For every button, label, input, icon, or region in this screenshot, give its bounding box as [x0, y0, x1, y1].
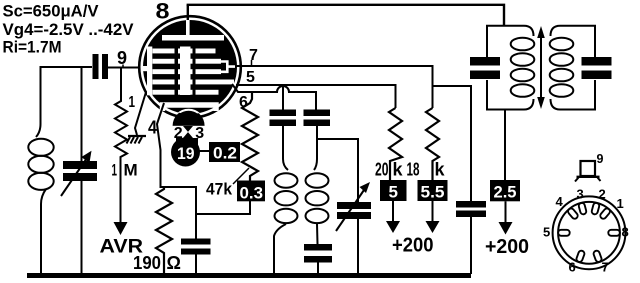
svg-text:k: k — [435, 160, 446, 180]
wire AVR arrow — [120, 183, 122, 222]
inductor L-IF-right — [306, 173, 329, 187]
wire grid top (pin9 net horizontal) — [41, 66, 93, 68]
svg-text:8: 8 — [156, 0, 170, 24]
socket outer circle — [553, 196, 626, 269]
capacitor C-bot — [304, 244, 332, 251]
svg-text:20: 20 — [375, 160, 389, 180]
ground rail — [27, 273, 471, 278]
inductor L-ant (antenna coil) — [28, 139, 53, 156]
resistor R-47k — [242, 92, 258, 183]
chassis ground (hatched) — [128, 135, 146, 137]
wire transformer tap to 2.5 — [504, 110, 506, 182]
svg-text:1: 1 — [129, 94, 136, 111]
capacitor C-bypass right — [456, 201, 486, 208]
cathode band — [163, 105, 217, 111]
grid rows — [153, 47, 235, 96]
pin 8 lead — [187, 5, 189, 20]
arrow +200 left b — [432, 201, 434, 222]
anode bar — [162, 35, 224, 41]
svg-text:Ri=1.7M: Ri=1.7M — [3, 37, 62, 56]
socket inner circle — [558, 202, 620, 264]
arrow +200 right — [505, 201, 507, 223]
svg-text:0.2: 0.2 — [213, 144, 237, 163]
meter disc 19 — [171, 138, 200, 167]
wire pin 7 to 18k — [235, 66, 433, 108]
svg-text:4: 4 — [148, 118, 157, 138]
capacitor C1 — [270, 110, 297, 117]
heater circle — [173, 110, 205, 142]
svg-text:5: 5 — [543, 224, 550, 239]
anode lead white — [186, 19, 190, 37]
wire left IF coil to rail — [274, 224, 286, 274]
capacitor C-cath — [181, 239, 211, 245]
svg-text:7: 7 — [249, 47, 258, 64]
svg-text:+200: +200 — [485, 236, 529, 258]
arrow of CV1 — [61, 158, 87, 196]
arrow of CV2 — [336, 190, 364, 231]
svg-text:1: 1 — [617, 196, 624, 211]
right bracket to pin 7 — [221, 62, 235, 72]
wire 18k branch to bypass cap — [433, 86, 471, 201]
svg-text:5: 5 — [389, 183, 398, 202]
wire right IF coil to bottom cap — [316, 224, 319, 244]
meter box 0.3 — [237, 181, 265, 202]
capacitor C2 — [304, 110, 331, 117]
wire branch to padder varicap — [317, 139, 358, 202]
svg-text:M: M — [124, 161, 138, 180]
meter box 5.5 — [418, 180, 448, 201]
wire C2 to right IF coil — [314, 126, 317, 170]
variable capacitor CV1 (tuning) — [63, 161, 97, 169]
wire pin 5 to 20k — [236, 85, 396, 108]
svg-text:8: 8 — [622, 224, 629, 239]
socket top cap — [581, 161, 596, 176]
svg-text:0.3: 0.3 — [240, 183, 264, 202]
svg-text:9: 9 — [117, 48, 127, 68]
output transformer left winding outline — [487, 26, 524, 110]
variable capacitor CV2 — [337, 202, 371, 209]
svg-text:Vg4=-2.5V ..-42V: Vg4=-2.5V ..-42V — [3, 20, 135, 39]
resistor R-1M grid leak — [115, 68, 127, 183]
svg-text:3: 3 — [577, 186, 584, 201]
svg-text:3: 3 — [195, 125, 204, 142]
capacitor C-grid (series grid cap) — [93, 54, 99, 79]
svg-text:5: 5 — [246, 69, 255, 86]
svg-text:18: 18 — [407, 160, 420, 180]
capacitor C1 (IF primary) lead from pin5 line — [282, 85, 284, 110]
socket pins — [558, 202, 620, 262]
wire 0.3 to cathode node — [195, 200, 250, 215]
meter box 0.2 — [209, 142, 240, 162]
tube U1 envelope — [139, 16, 241, 118]
svg-text:Sc=650μA/V: Sc=650μA/V — [3, 1, 100, 20]
heater/disc bridge — [176, 137, 198, 146]
svg-text:2.5: 2.5 — [494, 183, 517, 202]
resistor R-18k — [426, 108, 439, 181]
svg-text:+200: +200 — [392, 235, 434, 257]
meter box 2.5 — [490, 180, 520, 201]
svg-text:47k: 47k — [206, 180, 232, 199]
capacitor C-out-right — [582, 57, 612, 66]
wire cathode node — [161, 187, 197, 239]
arrow +200 left a — [392, 201, 394, 222]
coupling double arrow — [540, 38, 542, 97]
svg-text:k: k — [393, 160, 404, 180]
meter box 5 — [380, 180, 407, 201]
wire pin 6 with hop over cap1 lead — [232, 84, 316, 110]
svg-text:7: 7 — [602, 260, 609, 275]
inductor L-IF-left — [275, 173, 298, 187]
wire antenna left vertical — [36, 66, 41, 137]
resistor R-20k — [389, 108, 402, 181]
inductor L-out-right — [550, 38, 574, 51]
wire pin8 to output transformer — [187, 5, 504, 26]
wire 19 to 0.2 — [199, 150, 210, 152]
svg-text:6: 6 — [569, 260, 576, 275]
heater band with 2 3 — [173, 126, 206, 138]
svg-text:9: 9 — [597, 152, 604, 166]
svg-text:2: 2 — [599, 186, 606, 201]
wire cap to pin 9 — [108, 67, 145, 69]
svg-text:1: 1 — [112, 161, 118, 180]
resistor R-190 cathode — [156, 187, 172, 274]
svg-text:5.5: 5.5 — [421, 183, 445, 202]
svg-text:4: 4 — [556, 194, 564, 209]
wire C1 to left IF coil — [283, 126, 288, 170]
svg-text:Ω: Ω — [167, 253, 181, 273]
wire antenna coil bottom to rail — [41, 189, 46, 274]
wire varicap branch vertical — [81, 67, 83, 161]
capacitor C-out-left — [470, 57, 500, 66]
svg-text:19: 19 — [177, 144, 195, 163]
svg-text:190: 190 — [133, 253, 161, 273]
inductor L-out-left — [511, 38, 535, 51]
grid left bracket (pin9) — [147, 47, 152, 96]
tube U1 inner disc — [143, 20, 237, 114]
output transformer right winding outline — [560, 26, 595, 110]
